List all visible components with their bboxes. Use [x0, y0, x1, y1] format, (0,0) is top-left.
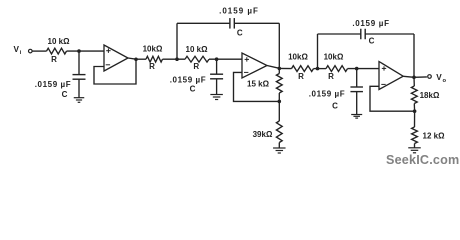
svg-text:C: C	[369, 36, 375, 45]
wire top rail 2 right of C3f down to U3 output	[365, 34, 414, 77]
op-amp U3	[379, 62, 403, 90]
svg-text:.0159 µF: .0159 µF	[219, 6, 259, 15]
resistor R1 10k	[47, 37, 71, 64]
svg-text:15 kΩ: 15 kΩ	[247, 79, 270, 88]
resistor R4 15k	[247, 68, 282, 101]
svg-text:V: V	[436, 73, 442, 82]
svg-text:V: V	[14, 45, 20, 54]
svg-text:R: R	[149, 62, 155, 71]
node J3	[278, 67, 282, 71]
resistor R3 10k	[185, 45, 209, 71]
wire U1 output	[128, 58, 146, 59]
resistor R8 18k	[411, 77, 440, 111]
node B	[215, 57, 219, 61]
output terminal Vo	[428, 75, 432, 79]
svg-text:10 kΩ: 10 kΩ	[186, 45, 209, 54]
wire U3 output to Vo	[404, 76, 427, 77]
wire node C up to feedback cap rail 2	[317, 34, 319, 69]
wire R7 to U3 + input	[348, 68, 380, 70]
resistor R6 10k	[288, 52, 313, 81]
node J1	[77, 49, 81, 53]
capacitor C3f .0159uF stage3 feedback	[352, 19, 389, 45]
ground for R9	[408, 148, 421, 153]
wire top rail left of C2f	[177, 22, 230, 24]
ground for R5	[273, 148, 286, 153]
wire top rail right of C2f down to U2 output	[234, 23, 279, 68]
capacitor C2 .0159uF	[170, 59, 223, 94]
node A	[175, 57, 179, 61]
resistor R9 12k	[412, 111, 445, 148]
node J6	[413, 109, 417, 113]
node J5	[412, 76, 416, 80]
svg-text:.0159 µF: .0159 µF	[35, 80, 72, 89]
wire node A up to feedback cap rail	[176, 23, 178, 59]
svg-text:10kΩ: 10kΩ	[324, 52, 344, 61]
svg-text:o: o	[443, 78, 447, 84]
svg-text:C: C	[62, 90, 68, 99]
resistor R5 39k	[253, 101, 283, 148]
svg-text:10kΩ: 10kΩ	[288, 52, 308, 61]
svg-text:C: C	[332, 102, 338, 111]
capacitor C2f .0159uF stage2 feedback	[219, 6, 259, 37]
wire top rail 2 left of C3f	[318, 33, 361, 35]
op-amp U2	[242, 53, 267, 78]
capacitor C1 .0159uF	[35, 51, 86, 99]
wire U2 output to node J3	[267, 66, 279, 69]
wire R6 to node C	[314, 68, 327, 70]
resistor R7 10k	[324, 52, 348, 81]
resistor R2 10k	[143, 45, 163, 72]
wire U2 feedback loop	[234, 72, 280, 101]
ground for C3	[351, 115, 362, 119]
wire J3 to R6	[279, 67, 291, 69]
wire Vi to R1	[32, 50, 46, 52]
svg-text:.0159 µF: .0159 µF	[352, 19, 389, 28]
ground for C1	[74, 98, 85, 103]
svg-text:39kΩ: 39kΩ	[253, 130, 273, 139]
svg-text:R: R	[51, 55, 57, 64]
svg-text:10 kΩ: 10 kΩ	[48, 37, 71, 46]
label Vo	[436, 73, 446, 84]
ground for C2	[210, 95, 223, 100]
watermark SeekIC.com	[386, 153, 459, 167]
capacitor C3 .0159uF	[309, 69, 363, 115]
label Vi	[14, 45, 22, 56]
svg-text:R: R	[328, 72, 334, 81]
svg-text:C: C	[190, 85, 196, 94]
node D	[355, 67, 359, 71]
svg-text:SeekIC.com: SeekIC.com	[386, 153, 459, 167]
wire U1 feedback loop	[94, 59, 136, 84]
wire R2 to node A	[163, 58, 186, 60]
wire U3 feedback loop	[370, 86, 415, 111]
svg-text:R: R	[298, 72, 304, 81]
node J2 U1 output	[134, 58, 138, 62]
svg-text:12 kΩ: 12 kΩ	[423, 132, 446, 141]
node J4	[278, 100, 282, 104]
svg-text:10kΩ: 10kΩ	[143, 45, 163, 54]
svg-text:18kΩ: 18kΩ	[420, 91, 440, 100]
op-amp U1	[104, 45, 128, 71]
svg-text:C: C	[237, 28, 243, 37]
node C	[316, 67, 320, 71]
svg-text:R: R	[193, 62, 199, 71]
svg-text:.0159 µF: .0159 µF	[170, 76, 207, 85]
input terminal Vi	[29, 49, 33, 53]
wire R3 to U2 + input	[209, 58, 242, 60]
wire R1 to opamp U1 + input	[67, 50, 105, 52]
svg-text:.0159 µF: .0159 µF	[309, 89, 346, 98]
